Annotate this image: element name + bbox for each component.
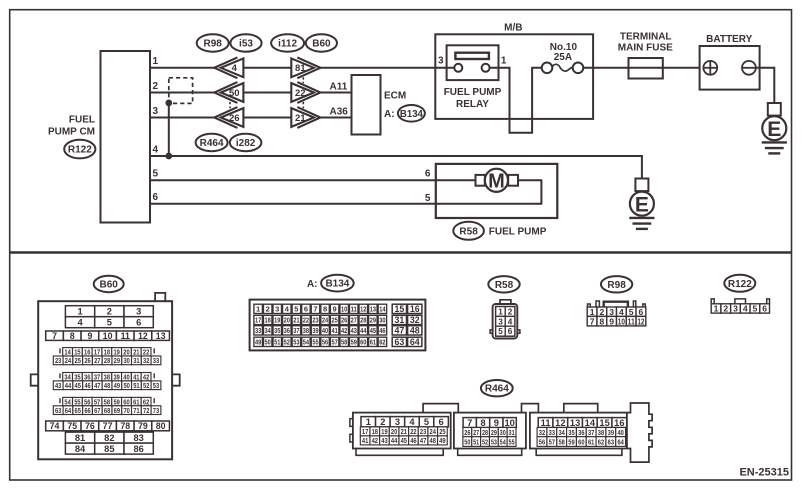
inline connector terminal 81 (i112/B60) [291, 57, 320, 78]
connector oval R98 [197, 34, 229, 51]
B134 connector body [250, 300, 426, 351]
svg-text:16: 16 [614, 418, 624, 428]
svg-text:46: 46 [410, 436, 416, 445]
svg-text:36: 36 [284, 326, 290, 335]
svg-text:A11: A11 [330, 82, 348, 93]
svg-text:64: 64 [65, 406, 72, 415]
svg-text:58: 58 [558, 437, 564, 446]
fuel pump control module R122 box [101, 51, 151, 223]
svg-text:51: 51 [473, 437, 479, 446]
B60 pins 63-73 [53, 406, 161, 415]
svg-text:49: 49 [114, 381, 120, 390]
svg-text:10: 10 [341, 305, 347, 314]
svg-text:44: 44 [65, 381, 72, 390]
svg-text:60: 60 [360, 338, 366, 347]
svg-text:26: 26 [341, 316, 347, 325]
svg-text:75: 75 [67, 421, 77, 431]
svg-text:6: 6 [508, 327, 513, 336]
dashed link between terminals 81 and 22 [302, 77, 304, 83]
junction node at dashed box [165, 100, 172, 107]
svg-text:31: 31 [509, 428, 515, 437]
svg-text:R464: R464 [200, 138, 224, 149]
R464 pins 1-6 [361, 417, 448, 428]
svg-text:TERMINAL: TERMINAL [620, 32, 672, 43]
svg-text:86: 86 [133, 444, 143, 454]
svg-text:5: 5 [753, 304, 758, 314]
svg-text:66: 66 [84, 406, 90, 415]
battery box [700, 46, 760, 90]
svg-text:50: 50 [265, 338, 271, 347]
svg-text:76: 76 [85, 421, 95, 431]
inline connector terminal 4 (R98/i53) [214, 57, 243, 78]
svg-text:72: 72 [143, 406, 149, 415]
svg-text:31: 31 [394, 315, 404, 325]
svg-text:64: 64 [617, 437, 624, 446]
svg-text:6: 6 [153, 192, 159, 203]
svg-text:52: 52 [143, 381, 149, 390]
svg-text:63: 63 [608, 437, 614, 446]
svg-text:28: 28 [482, 428, 488, 437]
svg-text:R98: R98 [607, 280, 626, 291]
svg-text:5: 5 [294, 305, 298, 314]
connector pinout B60 oval [94, 276, 124, 292]
svg-text:24: 24 [430, 427, 437, 436]
svg-text:7: 7 [52, 331, 57, 341]
svg-text:13: 13 [156, 331, 166, 341]
svg-text:3: 3 [153, 106, 159, 117]
terminal main fuse box [629, 58, 663, 79]
svg-text:4: 4 [232, 63, 238, 74]
svg-text:33: 33 [549, 428, 555, 437]
svg-text:FUEL PUMP: FUEL PUMP [489, 227, 547, 238]
svg-text:27: 27 [94, 356, 100, 365]
svg-text:12: 12 [637, 316, 644, 326]
svg-text:12: 12 [360, 305, 366, 314]
R58 connector body [490, 300, 520, 339]
svg-text:67: 67 [94, 406, 100, 415]
svg-text:53: 53 [491, 437, 497, 446]
svg-text:46: 46 [84, 381, 90, 390]
connector pinout R58 oval [488, 276, 519, 292]
svg-text:FUEL: FUEL [69, 115, 95, 126]
svg-text:4: 4 [508, 317, 513, 326]
svg-text:R58: R58 [459, 226, 478, 237]
svg-text:25: 25 [75, 356, 81, 365]
wire connector to connector row3 [243, 117, 291, 119]
svg-text:45: 45 [75, 381, 81, 390]
svg-text:29: 29 [370, 316, 376, 325]
svg-text:57: 57 [331, 338, 337, 347]
fuse No.10 25A right circle [573, 63, 584, 74]
svg-text:A:: A: [384, 109, 395, 120]
svg-text:63: 63 [394, 337, 404, 347]
svg-text:1: 1 [153, 56, 159, 67]
svg-text:7: 7 [467, 418, 472, 428]
wire pin6 to fuel pump 5 [150, 180, 541, 204]
svg-text:50: 50 [464, 437, 470, 446]
B60 pins 23-33 [53, 356, 161, 365]
svg-text:32: 32 [143, 356, 149, 365]
svg-text:53: 53 [153, 381, 159, 390]
svg-text:45: 45 [370, 326, 376, 335]
B134 pins 49-62 [254, 337, 387, 346]
inline connector terminal 26 (R464/i282) [214, 107, 243, 128]
svg-text:4: 4 [77, 318, 83, 328]
svg-text:84: 84 [75, 444, 86, 454]
ground (fuel pump CM side) [629, 179, 654, 229]
svg-text:27: 27 [473, 428, 479, 437]
svg-text:21: 21 [401, 427, 407, 436]
svg-text:6: 6 [304, 305, 308, 314]
svg-text:23: 23 [55, 356, 61, 365]
R464 pins 26-31 [463, 428, 516, 437]
svg-text:46: 46 [379, 326, 385, 335]
svg-text:61: 61 [588, 437, 594, 446]
fuel pump box R58 [436, 164, 558, 218]
svg-text:20: 20 [391, 427, 397, 436]
svg-text:26: 26 [464, 428, 470, 437]
svg-text:8: 8 [323, 305, 327, 314]
svg-text:R122: R122 [68, 145, 92, 156]
svg-text:25A: 25A [554, 52, 572, 63]
svg-text:3: 3 [438, 55, 444, 66]
svg-text:i112: i112 [278, 39, 297, 50]
connector pinout R122 oval [724, 275, 755, 292]
svg-text:23: 23 [420, 427, 426, 436]
wire pin4 to ground [150, 156, 642, 179]
svg-text:19: 19 [381, 427, 387, 436]
connector oval B134 [398, 105, 425, 122]
svg-text:i282: i282 [236, 138, 256, 149]
svg-text:54: 54 [303, 338, 310, 347]
battery positive terminal [703, 61, 717, 75]
B60 connector body [31, 293, 180, 459]
svg-text:8: 8 [70, 331, 75, 341]
wire pin1 to connector [150, 67, 215, 69]
svg-text:28: 28 [360, 316, 366, 325]
motor M right terminal [508, 175, 518, 186]
junction node on wire 4 [165, 153, 172, 160]
R464 pins 41-49 [360, 436, 447, 445]
B134 pins 1-14 [254, 304, 387, 313]
dashed link between terminals 50 and 26 [229, 102, 231, 108]
svg-text:25: 25 [331, 316, 337, 325]
svg-text:21: 21 [293, 316, 299, 325]
svg-text:8: 8 [599, 316, 604, 326]
svg-text:22: 22 [295, 88, 306, 99]
label FUEL PUMP CM [48, 115, 95, 138]
svg-text:73: 73 [153, 406, 159, 415]
svg-text:11: 11 [628, 316, 635, 326]
svg-text:12: 12 [138, 331, 148, 341]
B60 pins 34-42 [60, 372, 154, 381]
svg-text:62: 62 [379, 338, 385, 347]
svg-text:ECM: ECM [384, 91, 406, 102]
svg-text:40: 40 [322, 326, 328, 335]
svg-text:43: 43 [381, 436, 387, 445]
B60 pins 54-62 [60, 397, 154, 406]
svg-text:39: 39 [608, 428, 614, 437]
svg-text:30: 30 [500, 428, 506, 437]
wire connector to connector row2 [243, 92, 291, 94]
svg-text:57: 57 [549, 437, 555, 446]
svg-text:24: 24 [65, 356, 72, 365]
svg-text:BATTERY: BATTERY [706, 34, 752, 45]
R122 pins 1-6 [711, 304, 769, 314]
svg-text:3: 3 [136, 307, 141, 317]
svg-text:9: 9 [333, 305, 337, 314]
svg-text:15: 15 [394, 304, 404, 314]
svg-text:27: 27 [351, 316, 357, 325]
R58 pins 3-4 [496, 316, 515, 326]
svg-text:49: 49 [255, 338, 261, 347]
wire row3 to ECM A36 [319, 117, 351, 119]
svg-text:10: 10 [504, 418, 514, 428]
svg-text:2: 2 [723, 304, 728, 314]
svg-text:52: 52 [482, 437, 488, 446]
svg-text:33: 33 [255, 326, 261, 335]
connector pinout label A: B134 [307, 275, 354, 292]
wire link from dashed box to wire 4 [168, 103, 170, 156]
inline connector terminal 22 (i112/B60) [291, 82, 320, 103]
svg-text:M/B: M/B [504, 23, 522, 34]
R464 pins 11-16 [538, 418, 627, 428]
B60 pins 81-83 [65, 432, 153, 443]
svg-text:74: 74 [50, 421, 60, 431]
svg-text:13: 13 [370, 305, 376, 314]
svg-text:80: 80 [156, 421, 166, 431]
B134 pins 15-16 [392, 304, 422, 314]
svg-text:65: 65 [75, 406, 81, 415]
dashed option box on wire 2 [169, 78, 193, 104]
svg-text:78: 78 [120, 421, 130, 431]
dashed link between terminals 22 and 21 [302, 102, 304, 108]
section separator line [11, 251, 792, 254]
svg-text:32: 32 [539, 428, 545, 437]
svg-text:55: 55 [509, 437, 515, 446]
B60 pins 1-3 [65, 306, 153, 317]
svg-text:5: 5 [153, 169, 159, 180]
svg-text:42: 42 [341, 326, 347, 335]
svg-text:3: 3 [275, 305, 279, 314]
svg-text:M: M [488, 171, 505, 193]
svg-text:32: 32 [410, 315, 420, 325]
svg-text:18: 18 [265, 316, 271, 325]
svg-text:48: 48 [430, 436, 436, 445]
svg-text:6: 6 [762, 304, 767, 314]
B60 pins 84-86 [65, 443, 153, 454]
svg-text:E: E [767, 118, 781, 141]
svg-text:56: 56 [539, 437, 545, 446]
svg-text:47: 47 [94, 381, 100, 390]
wire pin2 to connector [150, 92, 215, 94]
svg-text:68: 68 [104, 406, 110, 415]
svg-text:20: 20 [284, 316, 290, 325]
svg-text:2: 2 [153, 81, 159, 92]
B60 pins 7-13 [46, 331, 170, 341]
motor M [485, 169, 508, 193]
svg-text:1: 1 [498, 307, 503, 316]
svg-text:12: 12 [555, 418, 565, 428]
svg-text:85: 85 [104, 444, 114, 454]
svg-text:3: 3 [733, 304, 738, 314]
svg-text:2: 2 [508, 307, 513, 316]
label FUEL PUMP RELAY [444, 87, 502, 110]
svg-text:B134: B134 [400, 109, 423, 120]
svg-text:51: 51 [133, 381, 139, 390]
svg-text:36: 36 [578, 428, 584, 437]
svg-text:17: 17 [255, 316, 261, 325]
fuel pump relay box [447, 45, 499, 80]
svg-text:59: 59 [351, 338, 357, 347]
main fuse box M/B [435, 34, 593, 119]
svg-text:69: 69 [114, 406, 120, 415]
B134 pins 47-48 [392, 326, 422, 336]
svg-text:41: 41 [362, 436, 368, 445]
motor M left terminal [476, 175, 485, 186]
label No.10 25A [550, 42, 578, 63]
svg-text:11: 11 [541, 418, 551, 428]
connector oval i53 [230, 34, 261, 51]
svg-text:15: 15 [599, 418, 609, 428]
wire relay pin1 to fuse (U dip) [490, 68, 542, 133]
svg-text:82: 82 [104, 433, 114, 443]
wire fuse to battery positive [583, 67, 703, 69]
svg-text:25: 25 [439, 427, 445, 436]
svg-text:30: 30 [123, 356, 129, 365]
svg-text:79: 79 [138, 421, 148, 431]
svg-text:14: 14 [585, 418, 596, 428]
svg-text:53: 53 [293, 338, 299, 347]
svg-text:38: 38 [598, 428, 604, 437]
connector oval R464 [196, 134, 228, 151]
inline connector terminal 21 (i112/B60) [291, 107, 320, 128]
svg-text:10: 10 [618, 316, 625, 326]
svg-text:11: 11 [351, 305, 357, 314]
B134 pins 17-30 [254, 315, 387, 324]
svg-text:5: 5 [107, 318, 112, 328]
svg-text:MAIN FUSE: MAIN FUSE [618, 42, 673, 53]
svg-text:47: 47 [420, 436, 426, 445]
svg-text:2: 2 [380, 417, 385, 427]
relay coil slot outer [455, 53, 489, 59]
svg-text:10: 10 [103, 331, 113, 341]
svg-text:44: 44 [360, 326, 367, 335]
svg-text:5: 5 [425, 193, 431, 204]
connector oval i112 [271, 34, 304, 51]
wire connector to connector row1 [243, 67, 291, 69]
svg-text:9: 9 [609, 316, 614, 326]
svg-text:3: 3 [395, 417, 400, 427]
svg-text:R464: R464 [485, 384, 509, 395]
wire pin5 to fuel pump 6 [150, 179, 476, 181]
svg-text:33: 33 [153, 356, 159, 365]
svg-text:47: 47 [394, 326, 404, 336]
svg-text:17: 17 [362, 427, 368, 436]
R464 pins 17-25 [360, 427, 447, 436]
svg-text:19: 19 [274, 316, 280, 325]
svg-text:43: 43 [351, 326, 357, 335]
svg-text:R122: R122 [728, 279, 752, 290]
svg-text:35: 35 [274, 326, 280, 335]
svg-text:52: 52 [284, 338, 290, 347]
wire pin3 to connector [150, 117, 215, 119]
B60 pins 4-6 [65, 317, 153, 328]
svg-text:1: 1 [714, 304, 719, 314]
B134 pins 63-64 [392, 337, 422, 347]
svg-text:45: 45 [401, 436, 407, 445]
R98 pins 1-6 [587, 307, 646, 317]
wire battery negative to ground [756, 68, 775, 103]
connector pinout R464 oval [481, 380, 513, 396]
svg-text:5: 5 [498, 327, 503, 336]
R464 connector body [350, 403, 652, 462]
svg-text:62: 62 [598, 437, 604, 446]
svg-text:70: 70 [123, 406, 129, 415]
connector oval R122 [64, 140, 95, 159]
svg-text:22: 22 [410, 427, 416, 436]
connector oval R58 (schematic) [453, 222, 484, 240]
svg-text:EN-25315: EN-25315 [739, 466, 789, 478]
connector pinout R98 oval [601, 276, 632, 292]
svg-text:48: 48 [104, 381, 110, 390]
svg-text:71: 71 [133, 406, 139, 415]
R122 connector body [711, 299, 769, 304]
svg-text:58: 58 [341, 338, 347, 347]
svg-text:1: 1 [366, 417, 371, 427]
svg-text:63: 63 [55, 406, 61, 415]
svg-text:83: 83 [133, 433, 143, 443]
svg-text:56: 56 [322, 338, 328, 347]
svg-text:6: 6 [425, 169, 431, 180]
svg-text:6: 6 [136, 318, 141, 328]
svg-text:1: 1 [77, 307, 82, 317]
label TERMINAL MAIN FUSE [618, 32, 673, 54]
svg-text:50: 50 [123, 381, 129, 390]
fuse element wave [552, 64, 573, 71]
inline connector terminal 50 (R464/i282) [214, 82, 243, 103]
svg-text:1: 1 [501, 55, 507, 66]
svg-text:61: 61 [370, 338, 376, 347]
R464 pins 7-10 [463, 418, 516, 428]
svg-text:37: 37 [293, 326, 299, 335]
svg-text:3: 3 [498, 317, 503, 326]
svg-text:50: 50 [229, 88, 240, 99]
fuse No.10 25A left circle [542, 63, 553, 74]
svg-text:43: 43 [55, 381, 61, 390]
B134 pins 33-46 [254, 326, 387, 335]
svg-text:44: 44 [391, 436, 398, 445]
svg-text:2: 2 [107, 307, 112, 317]
B60 pins 43-53 [53, 381, 161, 390]
svg-text:A36: A36 [330, 106, 349, 117]
B60 pins 14-22 [60, 348, 154, 357]
connector oval B60 [306, 34, 337, 51]
svg-text:B134: B134 [325, 279, 349, 290]
svg-text:77: 77 [103, 421, 113, 431]
wire row2 to ECM A11 [319, 92, 351, 94]
svg-text:16: 16 [410, 304, 420, 314]
svg-text:60: 60 [578, 437, 584, 446]
svg-text:34: 34 [265, 326, 272, 335]
svg-text:28: 28 [104, 356, 110, 365]
svg-text:8: 8 [480, 418, 485, 428]
svg-text:37: 37 [588, 428, 594, 437]
svg-text:7: 7 [313, 305, 317, 314]
battery negative terminal [742, 61, 756, 75]
svg-text:31: 31 [133, 356, 139, 365]
svg-text:42: 42 [372, 436, 378, 445]
